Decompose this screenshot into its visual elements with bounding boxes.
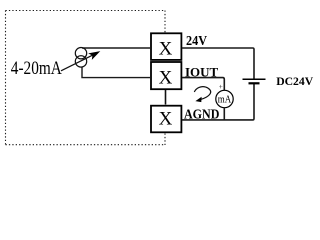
svg-text:IOUT: IOUT	[185, 65, 219, 80]
ammeter P1 (mA)	[216, 90, 233, 107]
svg-text:24V: 24V	[186, 33, 207, 48]
wire: current source top to terminal X1	[82, 47, 150, 49]
battery B1 short plate	[249, 82, 260, 84]
wire: AGND rail from X3 to battery bottom	[182, 84, 254, 120]
svg-text:mA: mA	[218, 94, 232, 105]
adjustability arrow through current source	[61, 55, 93, 71]
svg-text:X: X	[159, 38, 173, 59]
transmitter enclosure dashed box	[6, 11, 166, 146]
svg-text:DC24V: DC24V	[276, 75, 314, 88]
wire: IOUT from X2 to ammeter	[182, 78, 224, 91]
battery B1 long plate	[243, 78, 266, 80]
svg-text:X: X	[159, 109, 173, 130]
svg-text:+: +	[219, 82, 223, 91]
curved direction arrow at ammeter	[194, 87, 210, 100]
svg-text:4-20mA: 4-20mA	[11, 58, 62, 79]
wire: current source bottom stub and run to terminal X2	[82, 67, 150, 78]
wire: X2 to X3 link	[165, 90, 167, 105]
wire: 24V rail from X1 to battery top	[182, 48, 254, 79]
wire: ammeter bottom to AGND rail	[223, 108, 225, 120]
current source G1 (two overlapping circles)	[75, 48, 86, 59]
svg-text:AGND: AGND	[184, 106, 219, 121]
terminal block X2 (IOUT)	[151, 62, 181, 89]
svg-text:X: X	[159, 68, 173, 89]
terminal block X3 (AGND)	[151, 106, 181, 133]
terminal block X1 (24V)	[151, 33, 181, 60]
